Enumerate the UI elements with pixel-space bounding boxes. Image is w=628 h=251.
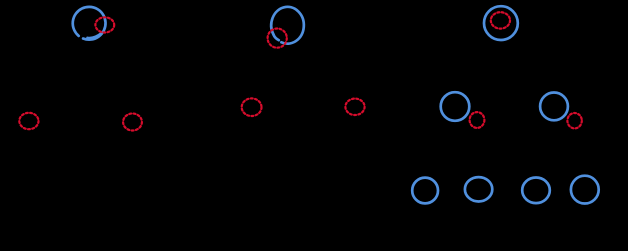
blue ellipse B2 (middle-top, open hand-drawn) — [271, 7, 304, 44]
blue circle B3 (top-right) — [484, 6, 518, 40]
blue circle B5 — [540, 93, 568, 121]
red dashed circle R1 (overlapping B1) — [95, 17, 114, 32]
blue circle B9 (bottom row 4) — [571, 176, 599, 204]
red dashed circle R9 (small, right of B5) — [567, 113, 581, 128]
blue circle B6 (bottom row 1) — [412, 178, 438, 204]
blue circle B7 (bottom row 2) — [465, 177, 492, 201]
red dashed circle R8 (small, right of B4) — [470, 112, 485, 128]
blue circle B1 (top-left, open hand-drawn) — [73, 7, 106, 40]
blue circle B4 — [441, 92, 470, 121]
red dashed circle R3 — [123, 114, 142, 131]
red dashed circle R7 (inside B3) — [491, 12, 510, 28]
red dashed circle R4 (below B2) — [268, 28, 287, 47]
blue circle B8 (bottom row 3) — [522, 178, 550, 204]
red dashed circle R6 — [345, 99, 364, 115]
red dashed circle R2 (far left) — [19, 113, 38, 129]
red dashed circle R5 — [242, 98, 262, 116]
